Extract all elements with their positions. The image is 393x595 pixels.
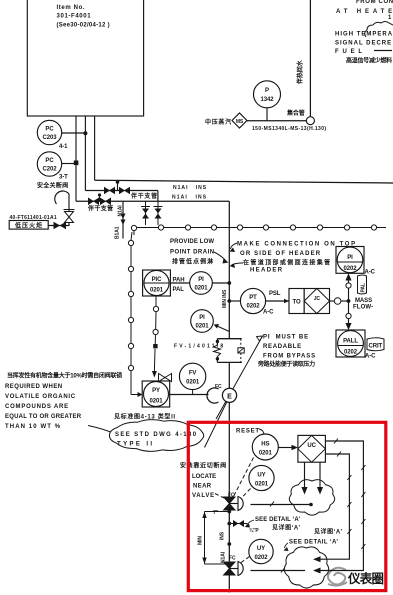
relay UY 0202 (249, 539, 273, 563)
valve (vertical gate to flare) (65, 212, 74, 223)
svg-text:150-MS1340L-MS-13(H.130): 150-MS1340L-MS-13(H.130) (252, 126, 326, 132)
svg-text:PI: PI (198, 277, 204, 283)
svg-text:C203: C203 (43, 135, 58, 141)
svg-text:NEAR: NEAR (193, 484, 212, 490)
svg-text:INS: INS (220, 531, 226, 540)
wire: PT to TO box with PSL (266, 300, 289, 302)
svg-text:安全关断阀: 安全关断阀 (37, 182, 68, 190)
svg-text:中压蒸汽: 中压蒸汽 (205, 118, 231, 126)
valve (tracing v1) (142, 209, 149, 219)
svg-text:MIN INS: MIN INS (222, 289, 228, 308)
arrowhead into PY (138, 392, 143, 397)
svg-text:PI: PI (199, 315, 205, 321)
wire: drop line B x=85.4 (84, 116, 86, 191)
svg-text:0202: 0202 (344, 266, 358, 272)
svg-text:0201: 0201 (195, 286, 209, 292)
wire: drop line A x=76 (75, 116, 77, 201)
svg-text:A-C: A-C (263, 310, 274, 316)
svg-text:旁路处能便于读取压力: 旁路处能便于读取压力 (257, 360, 315, 368)
instrument P 1342 (254, 81, 281, 108)
banner CRIT (367, 338, 384, 351)
svg-text:TO: TO (292, 300, 300, 306)
svg-text:PT: PT (249, 295, 257, 301)
svg-text:1342: 1342 (261, 97, 275, 103)
svg-text:N1AI: N1AI (221, 551, 227, 563)
svg-text:PAL: PAL (173, 287, 185, 293)
leader provide-note (214, 252, 226, 261)
strainer assembly on main line (217, 338, 241, 340)
svg-text:PALL: PALL (343, 339, 358, 345)
svg-text:COMPOUNDS ARE: COMPOUNDS ARE (5, 404, 68, 410)
logic box JC (square+diamond) (304, 289, 329, 314)
svg-text:伴热回水: 伴热回水 (296, 59, 304, 85)
svg-text:E: E (227, 393, 232, 400)
leader make-note (231, 243, 238, 249)
svg-text:MIN: MIN (198, 536, 204, 545)
svg-text:0202: 0202 (344, 350, 358, 356)
revision cloud around TEMPERA (365, 22, 393, 38)
red highlight box (188, 422, 385, 590)
wire: main to PT (229, 300, 240, 302)
svg-text:FV-1/4011/8: FV-1/4011/8 (174, 344, 223, 350)
svg-text:0202: 0202 (255, 555, 269, 561)
wire: header line 2 (76, 200, 229, 202)
svg-text:¾″P: ¾″P (249, 527, 259, 534)
revision cloud 2 (284, 547, 328, 588)
svg-text:P: P (265, 88, 269, 94)
svg-text:UY: UY (257, 546, 265, 552)
wire: branch down to header2 (157, 191, 159, 202)
instrument PI 0201 (bypass gauge) (191, 310, 214, 333)
signal ticks (270, 439, 365, 573)
svg-text:301-F4001: 301-F4001 (57, 14, 92, 20)
svg-text:FC: FC (229, 556, 236, 562)
svg-text:PC: PC (45, 158, 54, 164)
svg-text:MS: MS (236, 119, 244, 125)
top-right note: FROM CON / AT HEATER (336, 0, 393, 21)
svg-text:A-C: A-C (365, 270, 376, 276)
svg-text:0202: 0202 (247, 304, 261, 310)
svg-text:UC: UC (307, 443, 316, 449)
svg-text:HS: HS (261, 442, 269, 448)
wire: flare drop (68, 194, 70, 212)
valve (upper pair left) (104, 187, 115, 195)
bleed stub with dot (99, 196, 101, 202)
svg-text:JC: JC (314, 296, 321, 302)
svg-text:0201: 0201 (150, 399, 164, 405)
dash after FUEL (374, 50, 392, 52)
svg-text:0201: 0201 (186, 380, 200, 386)
leader from text block to balloon (88, 426, 113, 434)
wire: down branch to PALL (348, 301, 350, 313)
svg-text:0201: 0201 (150, 288, 164, 294)
wire: PI to main line (212, 282, 229, 284)
leader from main line to bypass PI (216, 326, 229, 332)
svg-text:HEADER: HEADER (250, 268, 283, 274)
wire: PC C202 to drop line (62, 163, 76, 165)
wire: tracing return riser x=310 (309, 0, 311, 117)
valve (upper pair right) (119, 187, 130, 195)
inline component E (222, 388, 236, 402)
svg-text:MASS: MASS (355, 298, 372, 304)
alarm PALL 0202 (square+circle) (336, 330, 365, 357)
junction dots on main line (227, 510, 231, 514)
svg-text:SEE DETAIL ‘A’: SEE DETAIL ‘A’ (289, 540, 338, 546)
svg-text:READABLE: READABLE (263, 344, 301, 350)
switch HS 0201 (252, 434, 278, 460)
svg-text:PI: PI (347, 255, 353, 261)
flow arrows on B1A1 (121, 214, 126, 226)
svg-text:EQUAL TO OR GREATER: EQUAL TO OR GREATER (5, 414, 82, 420)
relay UY 0201 (249, 465, 274, 490)
svg-text:1: 1 (388, 15, 392, 21)
instrument PC C202 (37, 152, 61, 176)
junction square (74, 161, 79, 166)
wire: B1A1 branch down (122, 201, 124, 238)
svg-text:集合管: 集合管 (286, 109, 305, 117)
signal line from PIC to PY (dashes+circles) (154, 296, 156, 371)
valve actuator arc C (207, 388, 219, 403)
svg-text:4-1: 4-1 (59, 144, 68, 150)
wire: upper tracing branch (85, 190, 157, 192)
svg-text:HIGH TEMPERA: HIGH TEMPERA (335, 32, 393, 38)
svg-text:SEE STD DWG 4-130: SEE STD DWG 4-130 (115, 432, 197, 438)
svg-text:7″: 7″ (213, 510, 219, 516)
wire: valve2 line into cloud2 (251, 570, 306, 572)
signal line with circles: vertical x=131 (131, 232, 138, 395)
svg-text:0201: 0201 (259, 451, 273, 457)
wire: UC bottom outputs to valve detail cloud (304, 462, 306, 487)
controller PIC 0201 (square+circle) (143, 270, 171, 296)
wire: UC out lower right (320, 454, 349, 559)
svg-text:SEE DETAIL ‘A’: SEE DETAIL ‘A’ (255, 517, 300, 523)
wire: JC output (330, 300, 335, 302)
svg-text:PI MUST BE: PI MUST BE (263, 335, 308, 341)
wire: PIC to PI (170, 282, 190, 284)
svg-text:REQUIRED WHEN: REQUIRED WHEN (5, 384, 62, 390)
wire: MS steam line (247, 120, 306, 122)
equipment box 301-F4001 (27, 0, 143, 116)
wire: valve1 actuator line into cloud (251, 504, 312, 506)
svg-text:B1A1: B1A1 (115, 226, 121, 239)
revision cloud 1 (289, 480, 334, 516)
top-right note: HIGH TEMPERATURE SIGNAL DECREASE FUEL (335, 32, 393, 56)
signal line with circles: horizontal y=227.5 (134, 228, 386, 236)
svg-text:伴干支管: 伴干支管 (130, 192, 157, 200)
svg-text:C202: C202 (43, 167, 58, 173)
dashed leaders to shutdown valve 1 (215, 458, 254, 501)
svg-text:在管道顶部或侧面连接集管: 在管道顶部或侧面连接集管 (243, 259, 330, 267)
svg-text:LOCATE: LOCATE (192, 474, 216, 480)
svg-text:FV: FV (189, 371, 197, 377)
svg-text:PROVIDE LOW: PROVIDE LOW (170, 239, 214, 245)
valve (lower pair left) (88, 198, 99, 206)
junction dot (83, 131, 87, 135)
wire: drop line C x=94.6 (94, 116, 96, 180)
svg-text:N1AI: N1AI (118, 205, 124, 217)
flare line hook arc (55, 191, 69, 204)
svg-text:0201: 0201 (196, 324, 210, 330)
dimension line MIN (205, 511, 230, 513)
svg-text:THAN 10 WT %: THAN 10 WT % (5, 424, 61, 430)
svg-text:高温信号减少燃料: 高温信号减少燃料 (346, 57, 392, 65)
wire: UC out top right (320, 441, 363, 571)
svg-text:RESET: RESET (236, 429, 259, 435)
svg-text:Item No.: Item No. (57, 5, 85, 11)
svg-text:3-T: 3-T (59, 175, 68, 181)
svg-text:见详图‘A’: 见详图‘A’ (314, 528, 342, 536)
svg-text:VOLATILE ORGANIC: VOLATILE ORGANIC (5, 394, 76, 400)
small valve glyph at PY corner (159, 374, 172, 382)
svg-text:N1AI INS: N1AI INS (173, 185, 207, 191)
svg-text:排管低点倒淋: 排管低点倒淋 (172, 258, 213, 266)
wire: PY output to valve actuator (170, 394, 209, 396)
watermark swirl (328, 568, 347, 586)
svg-text:FLOW-: FLOW- (353, 305, 373, 311)
node: open circle line end (306, 117, 314, 125)
svg-text:PAL: PAL (361, 283, 367, 292)
leader from note to bypass valve (216, 336, 263, 419)
svg-text:SIGNAL DECRE: SIGNAL DECRE (335, 41, 391, 47)
wire: main vertical line (228, 201, 230, 338)
svg-text:PSL: PSL (269, 291, 281, 297)
svg-text:N1AI INS: N1AI INS (172, 195, 207, 201)
wire: to flare box (49, 223, 70, 226)
svg-text:AT HEATE: AT HEATE (336, 9, 392, 15)
svg-text:POINT DRAIN: POINT DRAIN (170, 250, 214, 256)
instrument PI 0201 (190, 272, 213, 295)
svg-text:PC: PC (45, 127, 54, 133)
wire: HS to UC with arrow (278, 447, 293, 449)
valve (tracing v2) (155, 209, 162, 219)
svg-text:见详图‘A’: 见详图‘A’ (272, 524, 300, 532)
wire: stub from header1 to upper valve pair (117, 181, 119, 191)
svg-text:(See30-02/04-12 ): (See30-02/04-12 ) (57, 23, 110, 29)
svg-text:伴干支管: 伴干支管 (87, 205, 113, 213)
valve (lower pair right) (100, 198, 111, 206)
instrument PT 0202 (240, 288, 265, 313)
wire: up branch to PI 0202 (348, 288, 350, 301)
valve (flare bowtie) (54, 222, 67, 229)
svg-text:当挥发性有机物含量大于10%时需自闭阀联锁: 当挥发性有机物含量大于10%时需自闭阀联锁 (7, 372, 122, 380)
svg-text:A-C: A-C (365, 354, 376, 360)
spec break diamond MS (232, 113, 247, 128)
balloon SEE STD DWG 4-130 TYPE II (109, 420, 203, 452)
svg-text:见标准图4-13 类型II: 见标准图4-13 类型II (114, 413, 175, 421)
instrument PC C203 (37, 120, 61, 144)
svg-text:PIC: PIC (152, 277, 162, 283)
positioner PY 0201 (square+circle) (142, 381, 170, 407)
svg-text:OR SIDE OF HEADER: OR SIDE OF HEADER (240, 251, 321, 257)
box TO (289, 289, 304, 314)
dashed leader UY0202 to valve2 (239, 557, 250, 565)
logic box UC (square+diamond) (298, 435, 326, 462)
svg-text:CRIT: CRIT (369, 344, 383, 350)
svg-text:FROM CON: FROM CON (356, 0, 393, 5)
instrument FV 0201 (179, 363, 205, 389)
banner PAL (vertical) (358, 275, 367, 294)
svg-text:FUEL: FUEL (335, 49, 362, 55)
wire: header line 1 (95, 180, 393, 183)
wire: PC C203 to drop line (62, 132, 86, 134)
svg-text:UY: UY (257, 473, 265, 479)
svg-text:仪表圈: 仪表圈 (347, 571, 384, 586)
svg-text:FROM BYPASS: FROM BYPASS (263, 354, 315, 360)
leader from balloon to E valve (205, 402, 228, 448)
svg-text:PY: PY (152, 388, 160, 394)
svg-text:FC: FC (215, 384, 222, 390)
test connection 3/4"P (229, 523, 247, 525)
svg-text:VALVE: VALVE (192, 493, 214, 499)
wire: P1342 stem (266, 108, 268, 121)
label box 低压火炬 (9, 221, 48, 230)
svg-text:0201: 0201 (255, 482, 269, 488)
gauge PI 0202 (square+circle) (336, 247, 364, 274)
